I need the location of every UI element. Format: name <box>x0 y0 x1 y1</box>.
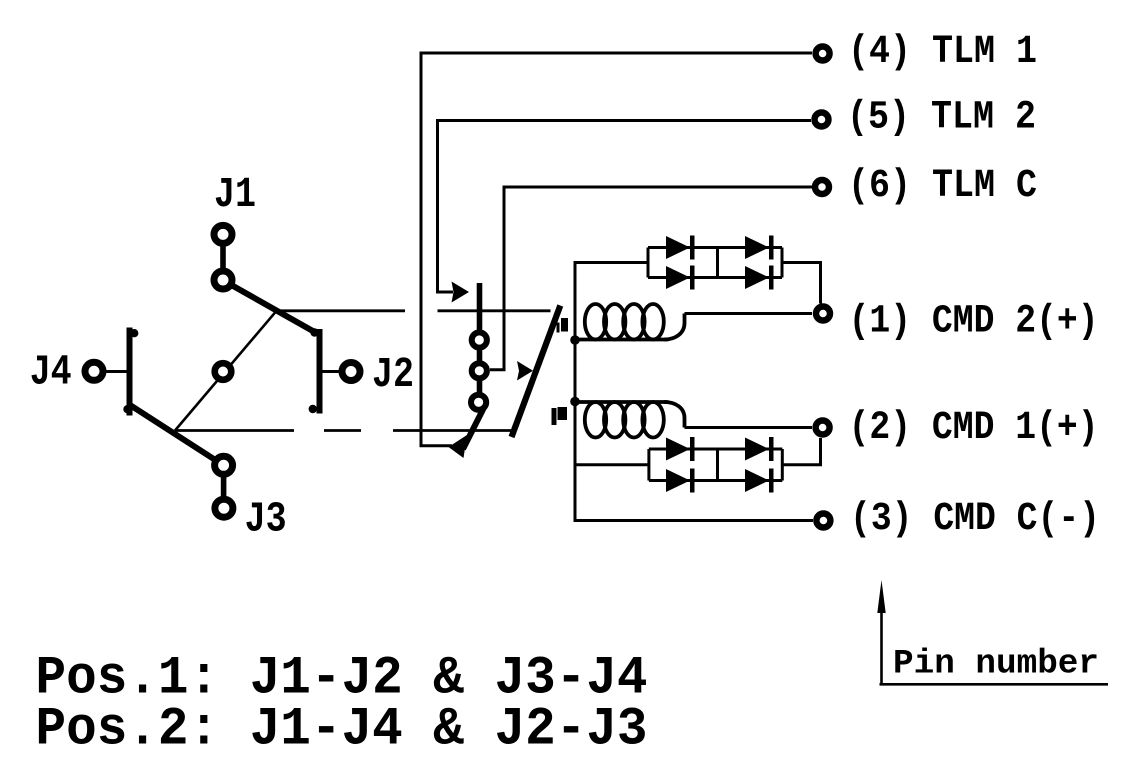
wire coil L2 exit to pin2 <box>685 426 813 429</box>
svg-text:J4: J4 <box>30 349 72 397</box>
diode D1 <box>666 236 774 290</box>
mark M1 lever top <box>561 318 568 332</box>
contact dot J4 bottom <box>123 405 131 413</box>
svg-text:(6) TLM C: (6) TLM C <box>848 163 1037 208</box>
arrow TLM2 wiper <box>452 282 470 303</box>
telemetry contact bar mid <box>477 350 483 362</box>
wire diode block K1 exit to pin1 <box>782 263 821 304</box>
diode D7 <box>666 469 690 492</box>
coil L1 <box>575 304 685 340</box>
svg-text:(5) TLM 2: (5) TLM 2 <box>847 95 1036 140</box>
junction dot coil L2 <box>570 397 580 407</box>
arrow small lever tip <box>449 435 468 458</box>
J3 link bar <box>221 471 227 502</box>
svg-text:(3) CMD C(-): (3) CMD C(-) <box>850 496 1100 541</box>
diode D2 <box>745 236 769 259</box>
wire J4 stub <box>105 370 127 373</box>
terminal pin6 <box>815 180 829 194</box>
diode D4 <box>745 266 769 289</box>
switch blade J1-J2 <box>226 282 316 333</box>
wire TLM2 pin5 <box>438 121 812 293</box>
switch blade J4-J3 <box>130 405 220 463</box>
wire diode block K2 entry <box>576 463 649 466</box>
svg-text:J1: J1 <box>214 171 256 219</box>
port ring J1 inner <box>214 271 232 289</box>
port ring J3 outer <box>215 499 233 517</box>
terminal pin2 <box>816 421 830 435</box>
terminal pin3 <box>816 514 830 528</box>
terminal pin5 <box>815 113 829 127</box>
svg-text:(2) CMD 1(+): (2) CMD 1(+) <box>849 405 1099 450</box>
dashed centerline lower pos2 part3 <box>393 429 514 432</box>
J1 link bar <box>220 240 226 274</box>
terminal pin4 <box>816 47 830 61</box>
wire common bus / CMD C <box>575 263 813 521</box>
terminal pin1 <box>816 307 830 321</box>
svg-text:J3: J3 <box>245 496 287 544</box>
thin link line through center pivot <box>175 311 277 431</box>
svg-text:(4) TLM 1: (4) TLM 1 <box>848 29 1037 74</box>
diode D8 <box>745 469 769 492</box>
wire diode block K2 exit to pin2 <box>782 438 820 465</box>
svg-text:Pin number: Pin number <box>893 646 1099 684</box>
diode D3 <box>666 266 690 289</box>
arrow actuator mid <box>517 361 533 381</box>
port ring J2 <box>342 363 360 381</box>
telemetry contact bar low <box>477 381 483 393</box>
junction dot coil L1 <box>570 335 580 345</box>
J2 contact bar <box>317 329 323 414</box>
wire coil L1 exit to pin1 <box>685 312 813 315</box>
wire TLM C pin6 <box>490 187 812 370</box>
diode block K1 frame <box>648 248 782 278</box>
wire J2 stub <box>323 370 340 373</box>
telemetry contact ring mid <box>472 363 487 378</box>
telemetry contact ring bottom <box>471 395 486 410</box>
actuator big lever <box>512 306 561 438</box>
J4 contact bar <box>127 328 133 416</box>
dashed centerline lower pos2 dash <box>324 429 361 432</box>
diode D6 <box>745 438 769 461</box>
contact dot J2 bottom <box>309 405 317 413</box>
dashed centerline upper pos1 part2 <box>438 309 551 312</box>
svg-text:J2: J2 <box>372 351 414 399</box>
coil L2 <box>575 402 685 438</box>
telemetry contact bar <box>477 283 483 331</box>
port ring J3 inner <box>215 456 233 474</box>
mark M2 near coil2 <box>552 408 557 425</box>
diode block K2 frame <box>649 449 782 481</box>
diode D5 <box>666 437 774 493</box>
contact dot J2 top <box>310 328 318 336</box>
contact dot J4 top <box>130 329 138 337</box>
actuator small lever <box>463 404 486 450</box>
svg-text:Pos.2: J1-J4 & J2-J3: Pos.2: J1-J4 & J2-J3 <box>36 700 648 761</box>
pin number callout arrow <box>880 611 883 685</box>
wire TLM1 pin4 <box>421 53 812 446</box>
svg-text:(1) CMD 2(+): (1) CMD 2(+) <box>849 299 1099 344</box>
port ring J4 <box>85 362 103 380</box>
dashed centerline upper pos1 <box>277 309 406 312</box>
dashed centerline lower pos2 <box>175 429 294 432</box>
port ring J1 outer <box>214 225 232 243</box>
telemetry contact ring top <box>472 332 487 347</box>
center pivot ring <box>215 363 232 380</box>
